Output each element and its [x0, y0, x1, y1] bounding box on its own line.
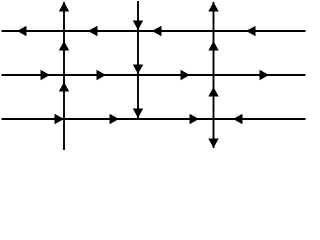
- arrowhead H3-d left: [233, 114, 243, 124]
- arrowhead H2-c right: [181, 70, 191, 80]
- arrowhead H1-c left: [152, 26, 162, 36]
- arrowhead H1-a left: [17, 26, 27, 36]
- arrowhead V1-c up: [59, 82, 69, 92]
- wire street H1 (top horizontal, one-way left): [2, 30, 306, 32]
- arrowhead H1-b left: [88, 26, 98, 36]
- arrowhead H3-a right: [55, 114, 65, 124]
- arrowhead V2-a down: [133, 21, 143, 31]
- wire street H3 (bottom horizontal): [2, 118, 306, 120]
- arrowhead H2-a right: [41, 70, 51, 80]
- arrowhead H2-b right: [97, 70, 107, 80]
- arrowhead V2-c down: [133, 109, 143, 119]
- arrowhead V1-b up: [59, 41, 69, 51]
- arrowhead V1-a up: [59, 2, 69, 12]
- wire street V1 (left vertical, one-way up): [63, 2, 65, 150]
- arrowhead V3-a up: [208, 2, 218, 12]
- arrowhead H3-c right: [190, 114, 200, 124]
- arrowhead H1-d left: [246, 26, 256, 36]
- arrowhead H2-d right: [260, 70, 270, 80]
- wire street H2 (middle horizontal, one-way right): [2, 74, 306, 76]
- arrowhead V2-b down: [133, 65, 143, 75]
- arrowhead V3-c up: [208, 87, 218, 97]
- wire street V3 (right vertical): [213, 2, 215, 148]
- arrowhead V3-b up: [208, 41, 218, 51]
- arrowhead H3-b right: [110, 114, 120, 124]
- arrowhead V3-d down: [208, 139, 218, 149]
- wire street V2 (middle vertical, one-way down): [137, 1, 139, 118]
